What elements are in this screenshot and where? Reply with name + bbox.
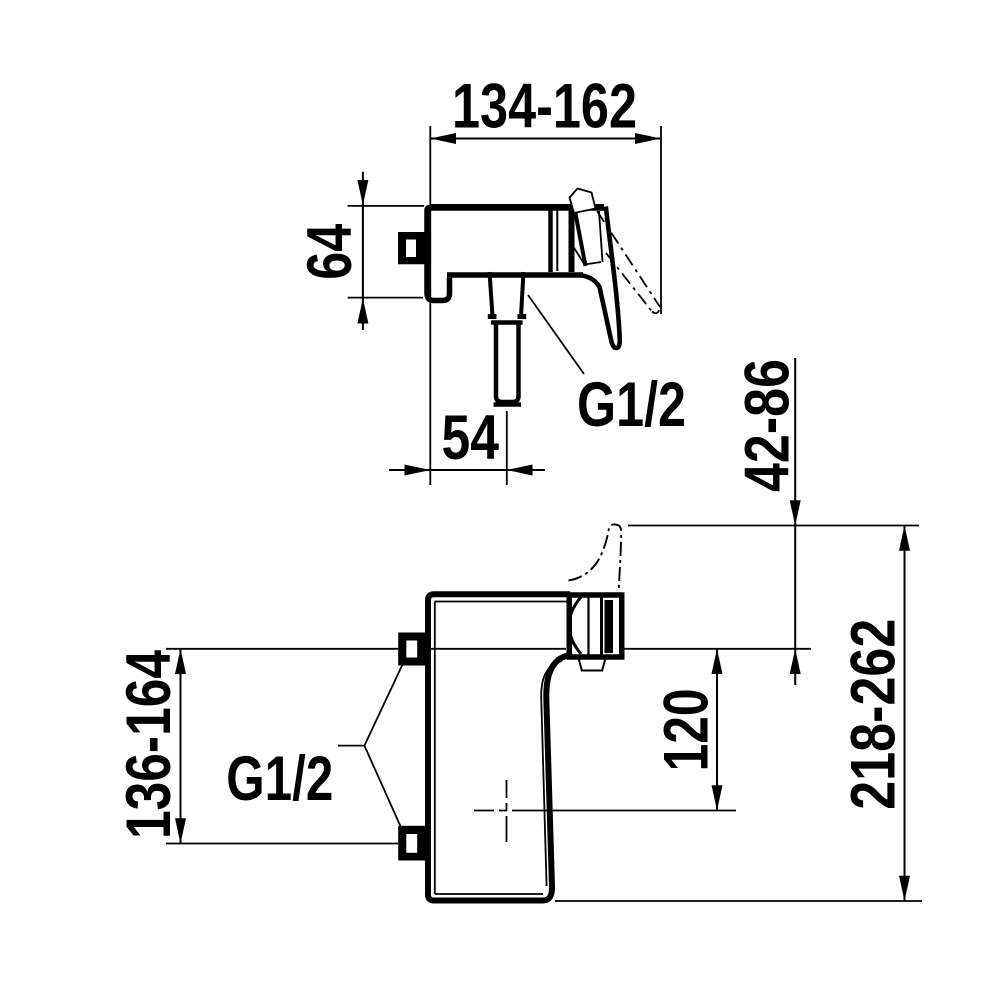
spout tube bbox=[496, 324, 519, 402]
cartridge line 2 upper view bbox=[569, 207, 575, 272]
arrow 120 top bbox=[712, 649, 723, 674]
wire extension line 134-162 right bbox=[660, 126, 662, 314]
svg-text:G1/2: G1/2 bbox=[226, 744, 333, 814]
wire extension line 134-162 left bbox=[429, 126, 431, 485]
wire extension line lower port y843 bbox=[166, 843, 398, 845]
leader G1/2 upper view bbox=[528, 295, 584, 374]
inner line right lower view bbox=[541, 661, 562, 886]
arrow 218-262 top bbox=[899, 526, 910, 551]
svg-text:54: 54 bbox=[441, 403, 499, 473]
cartridge line a lower view bbox=[587, 596, 589, 655]
handle grip thin lines upper view bbox=[574, 211, 603, 265]
body outline upper view bbox=[427, 208, 604, 301]
inner line left lower view bbox=[434, 602, 436, 895]
dimension line 42-86 bbox=[794, 358, 796, 685]
wire extension line body bottom y901 bbox=[555, 900, 922, 902]
centerline horizontal through cross bbox=[474, 810, 736, 812]
phantom lever dash-dot lower view bbox=[569, 524, 622, 591]
svg-text:G1/2: G1/2 bbox=[577, 370, 686, 440]
phantom lever dashed upper view bbox=[597, 211, 660, 307]
arrow 136-164 bottom bbox=[175, 818, 186, 843]
spout bottom cap bbox=[494, 402, 522, 407]
spout fill upper view bbox=[488, 272, 526, 407]
arrow 42-86 top bbox=[790, 500, 801, 525]
svg-text:136-164: 136-164 bbox=[114, 650, 184, 839]
port square upper view bbox=[398, 232, 426, 264]
handle lever arm upper view bbox=[582, 207, 620, 349]
leader G1/2 lower view bbox=[338, 664, 403, 827]
body fill lower view bbox=[428, 594, 570, 900]
cartridge line thin upper view bbox=[556, 210, 558, 271]
arrow 134-162 left bbox=[430, 133, 456, 144]
arrow 134-162 right bbox=[635, 133, 661, 144]
inner line bottom lower view bbox=[435, 893, 543, 895]
arrow 42-86 bottom bbox=[790, 649, 801, 674]
svg-text:134-162: 134-162 bbox=[452, 71, 637, 141]
body fill upper view bbox=[424, 205, 607, 303]
wire extension line handle top y525 bbox=[628, 525, 919, 527]
dimension line 134-162 bbox=[430, 138, 661, 140]
port square lower bottom bbox=[398, 826, 426, 861]
port square lower top bbox=[398, 633, 426, 666]
cartridge line b lower view bbox=[600, 596, 603, 655]
arrow 136-164 top bbox=[175, 649, 186, 674]
body bottom edge upper view bbox=[447, 272, 583, 278]
arrow 54 right bbox=[507, 465, 533, 476]
dimension line 136-164 bbox=[180, 649, 182, 844]
dimension line 218-262 bbox=[904, 526, 906, 902]
arrow 218-262 bottom bbox=[899, 876, 910, 901]
cartridge fill lower view bbox=[566, 592, 624, 658]
arrow 64 top bbox=[357, 180, 368, 205]
dimension line 54 bbox=[389, 469, 545, 471]
spout trapezoid upper view bbox=[490, 272, 524, 316]
cartridge dome arc lower view bbox=[569, 597, 581, 654]
wire extension line ports level y649 bbox=[166, 648, 400, 650]
cartridge line 1 upper view bbox=[548, 208, 553, 272]
svg-text:64: 64 bbox=[295, 224, 365, 280]
cartridge black bar lower view bbox=[605, 600, 614, 653]
handle grip pentagon upper view bbox=[570, 189, 596, 214]
wire extension line 54 right bbox=[506, 411, 508, 485]
arrow 64 bottom bbox=[357, 299, 368, 324]
inner line top lower view bbox=[435, 601, 567, 603]
svg-text:42-86: 42-86 bbox=[733, 359, 803, 492]
handle neck edge upper view bbox=[575, 211, 586, 266]
arrow 54 left bbox=[405, 465, 431, 476]
dimension line 120 bbox=[716, 649, 718, 811]
cartridge outline lower view bbox=[569, 595, 622, 657]
centerline vertical cross bbox=[506, 780, 508, 842]
arrow 120 bottom bbox=[712, 785, 723, 810]
svg-text:120: 120 bbox=[652, 688, 722, 771]
extension tick 64 bottom bbox=[348, 297, 423, 299]
extension tick 64 top bbox=[348, 205, 424, 207]
spout collar bbox=[488, 314, 497, 319]
svg-text:218-262: 218-262 bbox=[838, 619, 908, 810]
nut below cartridge lower view bbox=[579, 658, 606, 671]
dimension line 64 bbox=[362, 172, 364, 330]
body outline lower view bbox=[428, 594, 570, 900]
